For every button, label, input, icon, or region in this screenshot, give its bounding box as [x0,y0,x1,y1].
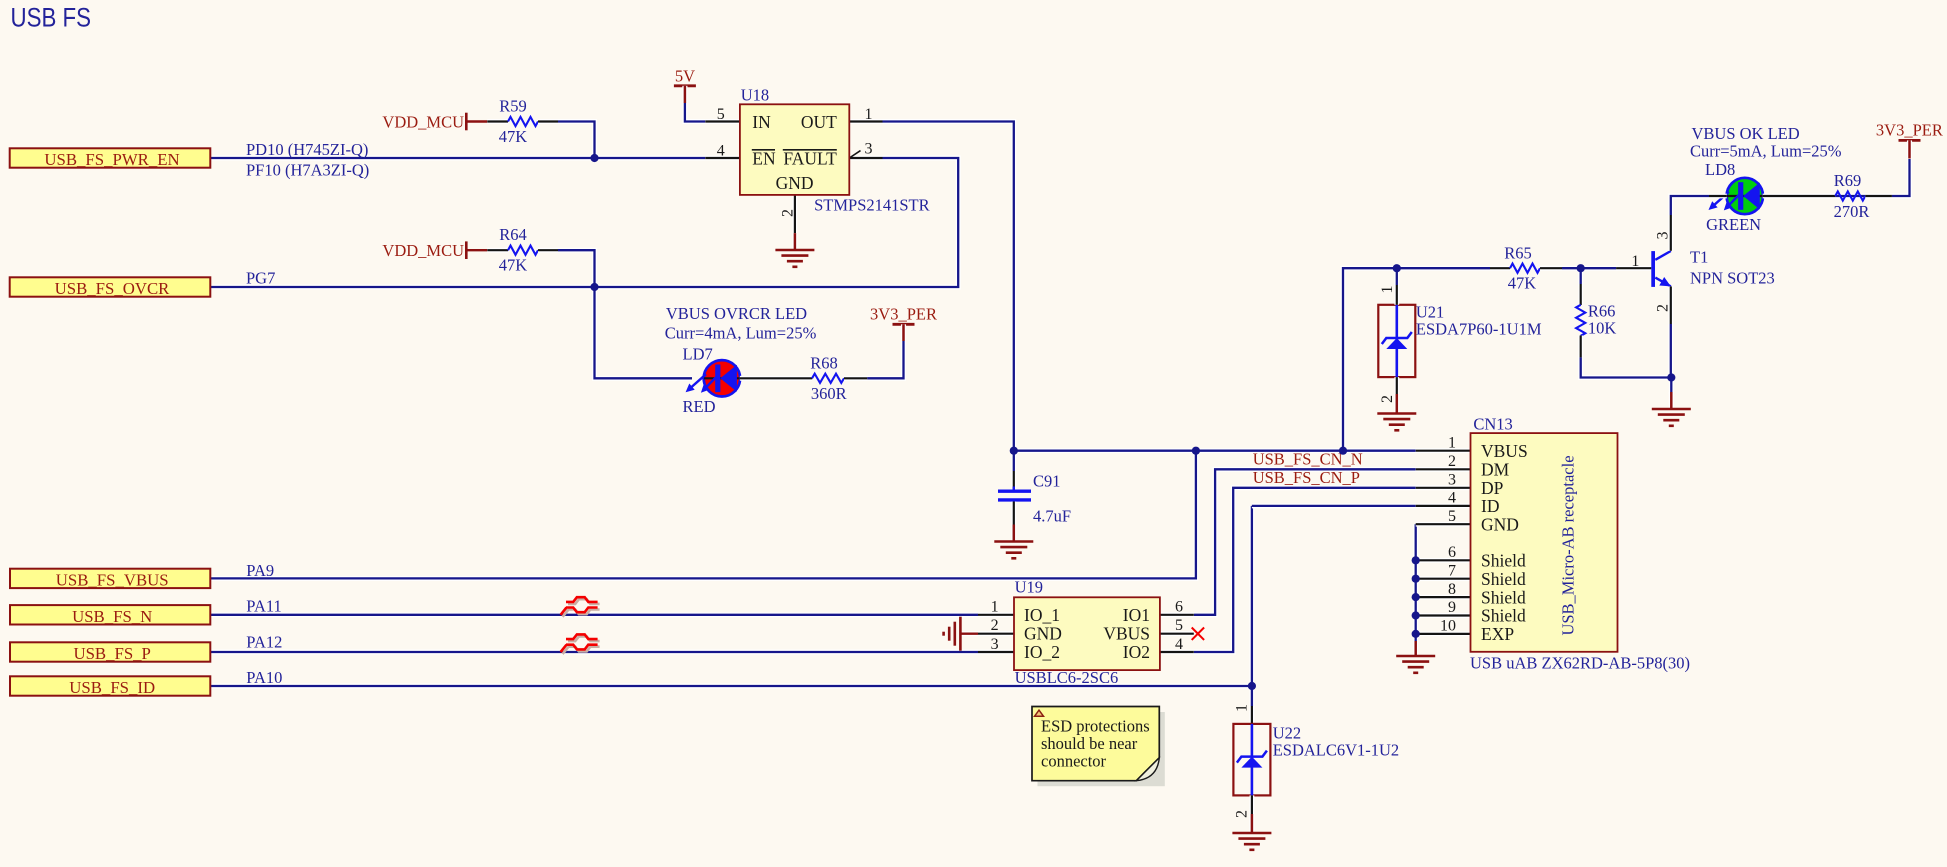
svg-text:R69: R69 [1834,171,1862,190]
svg-text:2: 2 [1379,395,1396,403]
svg-text:DM: DM [1481,460,1510,480]
svg-text:IO_1: IO_1 [1024,605,1060,625]
svg-text:3V3_PER: 3V3_PER [870,305,937,324]
svg-text:PA9: PA9 [246,561,274,580]
svg-text:9: 9 [1448,599,1456,616]
svg-text:USB_FS_OVCR: USB_FS_OVCR [55,279,171,298]
svg-text:2: 2 [991,617,999,634]
svg-text:IO1: IO1 [1123,605,1150,625]
svg-text:360R: 360R [811,384,847,403]
svg-text:Curr=4mA, Lum=25%: Curr=4mA, Lum=25% [665,324,817,343]
svg-text:Shield: Shield [1481,569,1526,589]
svg-text:47K: 47K [499,127,528,146]
svg-text:R65: R65 [1504,243,1532,262]
svg-text:6: 6 [1175,598,1183,615]
svg-text:should be near: should be near [1041,734,1138,753]
svg-text:R59: R59 [499,97,527,116]
svg-text:4.7uF: 4.7uF [1033,507,1071,526]
svg-text:10: 10 [1440,618,1456,635]
svg-text:USB_FS_PWR_EN: USB_FS_PWR_EN [44,150,179,169]
svg-text:5: 5 [717,106,725,123]
svg-text:6: 6 [1448,544,1456,561]
svg-text:USB_FS_VBUS: USB_FS_VBUS [56,570,169,589]
svg-text:USB FS: USB FS [11,3,92,33]
svg-text:ESDA7P60-1U1M: ESDA7P60-1U1M [1416,320,1542,339]
svg-text:VBUS: VBUS [1481,441,1528,461]
svg-text:GND: GND [1024,624,1062,644]
svg-text:ESDALC6V1-1U2: ESDALC6V1-1U2 [1273,741,1400,760]
svg-text:USBLC6-2SC6: USBLC6-2SC6 [1015,668,1119,687]
svg-text:STMPS2141STR: STMPS2141STR [814,196,930,215]
svg-text:T1: T1 [1690,248,1708,267]
svg-text:1: 1 [865,106,873,123]
svg-text:Curr=5mA, Lum=25%: Curr=5mA, Lum=25% [1690,142,1842,161]
svg-text:4: 4 [717,143,725,160]
svg-text:NPN SOT23: NPN SOT23 [1690,269,1775,288]
svg-text:CN13: CN13 [1473,415,1512,434]
svg-text:4: 4 [1448,490,1456,507]
svg-text:R68: R68 [810,353,838,372]
svg-text:IO2: IO2 [1123,642,1150,662]
svg-text:GND: GND [776,173,814,193]
svg-text:IN: IN [752,112,771,132]
svg-text:IO_2: IO_2 [1024,642,1060,662]
svg-text:OUT: OUT [801,112,837,132]
svg-text:Shield: Shield [1481,551,1526,571]
svg-text:7: 7 [1448,562,1456,579]
svg-text:2: 2 [1234,810,1251,818]
svg-text:USB_FS_N: USB_FS_N [72,607,152,626]
svg-text:LD8: LD8 [1705,160,1735,179]
svg-text:2: 2 [1448,453,1456,470]
svg-text:3: 3 [991,636,999,653]
svg-text:R64: R64 [499,225,527,244]
svg-text:ESD protections: ESD protections [1041,717,1150,736]
svg-text:2: 2 [1655,304,1672,312]
svg-text:PA11: PA11 [246,597,281,616]
svg-text:5: 5 [1175,617,1183,634]
svg-text:PD10 (H745ZI-Q): PD10 (H745ZI-Q) [246,140,368,159]
svg-text:VDD_MCU: VDD_MCU [382,113,464,132]
svg-text:3: 3 [865,141,873,158]
svg-text:PA12: PA12 [246,633,282,652]
svg-text:Shield: Shield [1481,587,1526,607]
svg-text:8: 8 [1448,581,1456,598]
svg-text:GND: GND [1481,514,1519,534]
svg-text:LD7: LD7 [683,345,713,364]
svg-text:1: 1 [1448,434,1456,451]
svg-text:PG7: PG7 [246,268,275,287]
svg-text:1: 1 [1631,253,1639,270]
svg-text:PF10 (H7A3ZI-Q): PF10 (H7A3ZI-Q) [246,161,369,180]
svg-text:1: 1 [1234,704,1251,712]
svg-text:3: 3 [1655,232,1672,240]
svg-text:VBUS OK LED: VBUS OK LED [1692,124,1800,143]
svg-text:VDD_MCU: VDD_MCU [382,241,464,260]
svg-text:10K: 10K [1588,319,1617,338]
svg-text:1: 1 [991,598,999,615]
svg-text:RED: RED [683,397,716,416]
svg-text:USB_FS_ID: USB_FS_ID [69,678,155,697]
svg-text:PA10: PA10 [246,668,282,687]
svg-text:4: 4 [1175,636,1183,653]
svg-text:VBUS OVRCR LED: VBUS OVRCR LED [666,304,807,323]
svg-text:USB_Micro-AB receptacle: USB_Micro-AB receptacle [1559,455,1578,635]
svg-text:47K: 47K [1508,274,1537,293]
svg-text:C91: C91 [1033,472,1061,491]
svg-text:USB_FS_CN_P: USB_FS_CN_P [1253,468,1360,487]
svg-text:3: 3 [1448,472,1456,489]
svg-text:5: 5 [1448,508,1456,525]
svg-text:VBUS: VBUS [1103,624,1150,644]
svg-text:2: 2 [780,209,797,217]
svg-text:DP: DP [1481,478,1504,498]
svg-text:ID: ID [1481,496,1499,516]
svg-text:3V3_PER: 3V3_PER [1876,121,1943,140]
svg-text:USB_FS_P: USB_FS_P [73,644,150,663]
svg-text:EN: EN [752,149,776,169]
svg-text:USB uAB ZX62RD-AB-5P8(30): USB uAB ZX62RD-AB-5P8(30) [1470,654,1690,673]
svg-text:5V: 5V [675,67,695,86]
svg-text:FAULT: FAULT [783,149,837,169]
svg-text:U19: U19 [1015,578,1043,597]
svg-text:1: 1 [1379,286,1396,294]
svg-text:47K: 47K [499,256,528,275]
svg-text:EXP: EXP [1481,624,1514,644]
svg-text:connector: connector [1041,751,1107,770]
svg-text:U18: U18 [741,86,769,105]
svg-text:Shield: Shield [1481,606,1526,626]
svg-text:GREEN: GREEN [1706,215,1761,234]
svg-text:270R: 270R [1834,202,1870,221]
